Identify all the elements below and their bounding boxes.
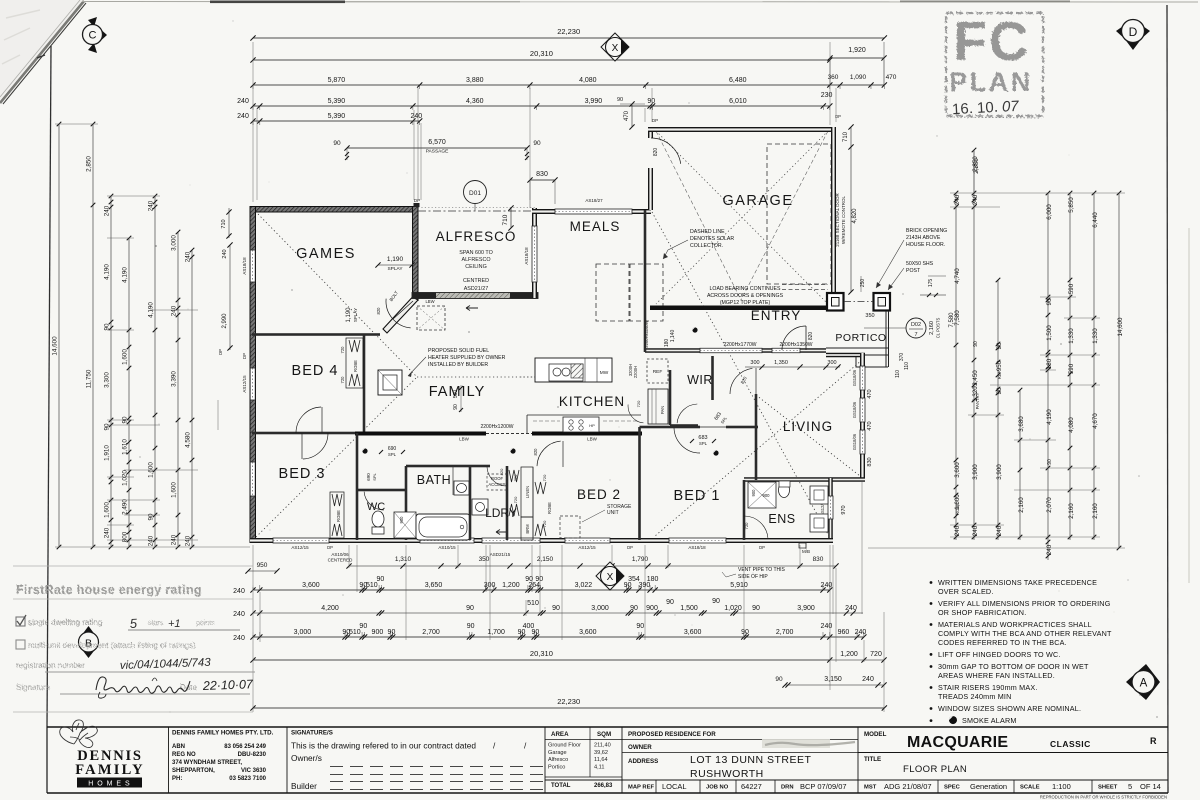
svg-text:90: 90 (388, 629, 396, 636)
svg-text:AS12/15: AS12/15 (242, 375, 247, 393)
bed2 door arc (537, 441, 561, 466)
svg-text:ENS: ENS (768, 512, 795, 526)
svg-text:GS18/06: GS18/06 (852, 433, 857, 450)
south exterior wall (250, 538, 833, 543)
svg-text:3,600: 3,600 (302, 582, 320, 589)
svg-text:WRITTEN DIMENSIONS TAKE PRECED: WRITTEN DIMENSIONS TAKE PRECEDENCE (938, 578, 1097, 587)
svg-text:2,990: 2,990 (222, 313, 228, 329)
svg-text:GAMES: GAMES (296, 246, 356, 262)
svg-text:3,000: 3,000 (591, 605, 609, 612)
bath/dry wall (469, 466, 472, 540)
svg-text:1,920: 1,920 (848, 47, 866, 54)
dash-dot line between posts (844, 301, 873, 303)
roof hip dotted line entry-living (652, 212, 830, 538)
bath top wall (406, 465, 490, 468)
marker D top right (1116, 24, 1126, 40)
svg-text:BED 4: BED 4 (292, 363, 339, 379)
svg-text:90: 90 (535, 576, 543, 583)
svg-text:830: 830 (536, 171, 548, 178)
svg-text:22,230: 22,230 (557, 27, 580, 36)
scan artifact top-left corner (0, 0, 83, 100)
svg-text:3200H: 3200H (628, 364, 633, 376)
svg-text:90: 90 (453, 404, 459, 410)
paper right edge artifact (1188, 228, 1190, 583)
svg-text:STAIR RISERS 190mm MAX.: STAIR RISERS 190mm MAX. (938, 683, 1038, 692)
svg-text:C: C (89, 30, 97, 42)
svg-text:3,900: 3,900 (996, 464, 1003, 480)
svg-text:ROBE: ROBE (955, 503, 960, 515)
svg-text:DP: DP (218, 349, 223, 355)
svg-text:90: 90 (376, 576, 384, 583)
dim 710 alfresco right (510, 208, 512, 228)
svg-text:CL POSTS: CL POSTS (936, 318, 941, 339)
ens right wall (828, 478, 833, 542)
FirstRate stamp lines (13, 565, 253, 567)
svg-text:DENNIS FAMILY HOMES PTY. LTD.: DENNIS FAMILY HOMES PTY. LTD. (172, 730, 274, 737)
top dim row 1920 (830, 57, 884, 59)
interior wall bed3/hall (252, 432, 355, 435)
svg-text:720: 720 (340, 346, 345, 354)
dashed lintel above entry wall (782, 284, 828, 286)
svg-text:1,140: 1,140 (670, 330, 676, 343)
svg-text:820: 820 (653, 148, 659, 157)
garage top wall (648, 127, 836, 132)
svg-text:TITLE: TITLE (864, 756, 881, 763)
svg-text:REF: REF (653, 369, 663, 375)
svg-text:3,022: 3,022 (575, 582, 593, 589)
svg-text:390: 390 (639, 582, 651, 589)
entry south wall (645, 348, 826, 353)
FirstRate energy stamp (16, 583, 202, 597)
svg-text:590: 590 (1068, 283, 1075, 294)
svg-text:INSTALLED BY BUILDER: INSTALLED BY BUILDER (428, 362, 488, 368)
svg-text:registration number: registration number (16, 661, 85, 670)
svg-text:LBW: LBW (587, 437, 598, 442)
arrow left alfresco (466, 306, 478, 311)
opening 2200Hx1200W in LBW (486, 433, 532, 435)
svg-text:4,080: 4,080 (579, 77, 597, 84)
marker B left (78, 626, 99, 640)
svg-text:Generation: Generation (970, 782, 1007, 791)
splay dim 1190 (378, 264, 412, 266)
svg-text:470: 470 (867, 389, 873, 398)
svg-text:LBW: LBW (425, 299, 434, 304)
svg-text:CODES REFERRED TO IN THE BCA.: CODES REFERRED TO IN THE BCA. (938, 638, 1067, 647)
svg-text:ROBE: ROBE (547, 502, 552, 514)
svg-text:180: 180 (647, 576, 659, 583)
roof hip dotted line living-bed1 (655, 360, 862, 536)
svg-text:ASD21/15: ASD21/15 (490, 552, 511, 557)
svg-text:211,40: 211,40 (594, 743, 611, 749)
svg-text:3,650: 3,650 (425, 582, 443, 589)
svg-text:PASSAGE: PASSAGE (426, 149, 449, 155)
bottom extension risers (252, 545, 254, 712)
svg-text:BRM: BRM (525, 524, 530, 534)
svg-text:3,390: 3,390 (171, 371, 178, 387)
marker D02 circle (906, 318, 926, 338)
svg-text:90: 90 (359, 623, 367, 630)
ens toilet (779, 483, 790, 498)
svg-text:950: 950 (996, 360, 1003, 371)
svg-text:720: 720 (340, 376, 345, 384)
kitchen island bench (535, 358, 612, 382)
svg-text:510: 510 (527, 600, 539, 607)
svg-text:240: 240 (185, 535, 192, 546)
svg-text:DP: DP (627, 545, 633, 550)
svg-text:970: 970 (841, 505, 847, 514)
skylight dashed box family (417, 306, 445, 330)
svg-text:90: 90 (532, 629, 540, 636)
top dim row 22230 (253, 37, 884, 39)
svg-text:240: 240 (862, 676, 874, 683)
svg-text:5,390: 5,390 (328, 98, 346, 105)
svg-text:2143H ABOVE: 2143H ABOVE (906, 235, 941, 241)
svg-text:960: 960 (838, 629, 850, 636)
svg-text:3,000: 3,000 (294, 629, 312, 636)
svg-text:ROBE: ROBE (336, 510, 341, 522)
svg-text:3,600: 3,600 (684, 629, 702, 636)
svg-text:ALFRESCO: ALFRESCO (436, 229, 517, 244)
svg-text:1,600: 1,600 (104, 502, 111, 518)
exterior wall left (250, 207, 256, 543)
svg-text:SMOKE ALARM: SMOKE ALARM (962, 716, 1017, 725)
svg-text:ALFRESCO: ALFRESCO (461, 257, 490, 263)
handwritten rating entries (120, 616, 212, 672)
paper speckles (103, 20, 1158, 718)
svg-text:300: 300 (827, 360, 836, 366)
svg-text:20,310: 20,310 (530, 49, 553, 58)
svg-text:PROPOSED RESIDENCE FOR: PROPOSED RESIDENCE FOR (628, 731, 716, 738)
svg-text:1,020: 1,020 (724, 605, 742, 612)
svg-text:90: 90 (624, 582, 632, 589)
svg-text:2200Hx1200W: 2200Hx1200W (480, 424, 513, 430)
svg-text:AS10/15: AS10/15 (438, 545, 456, 550)
svg-text:5: 5 (1128, 782, 1132, 791)
svg-text:LOT 13 DUNN STREET: LOT 13 DUNN STREET (690, 754, 811, 766)
exterior wall meals top (532, 209, 651, 214)
bathtub (416, 514, 470, 540)
svg-text:240: 240 (954, 194, 961, 205)
garage right wall (831, 127, 836, 295)
svg-text:MATERIALS AND WORKPRACTICES SH: MATERIALS AND WORKPRACTICES SHALL (938, 620, 1092, 629)
marker A right (1126, 664, 1160, 700)
bottom dim row B3 (253, 612, 863, 614)
svg-text:AS12/15: AS12/15 (578, 545, 596, 550)
svg-text:90: 90 (630, 605, 638, 612)
svg-text:90: 90 (333, 140, 341, 147)
svg-text:BATH: BATH (417, 473, 451, 487)
logo Dennis Family Homes (60, 720, 98, 748)
svg-text:3,880: 3,880 (466, 77, 484, 84)
svg-text:(MGP12 TOP PLATE): (MGP12 TOP PLATE) (720, 300, 771, 306)
svg-text:1,190: 1,190 (387, 256, 404, 263)
toilet wc (372, 511, 384, 527)
svg-text:83 056 254 249: 83 056 254 249 (224, 744, 266, 750)
top dim row 240-5390-4360-3990 (253, 105, 830, 107)
svg-text:FirstRate house energy rating: FirstRate house energy rating (16, 583, 202, 597)
handwritten signature (96, 677, 190, 693)
svg-text:900: 900 (646, 605, 658, 612)
svg-text:6,010: 6,010 (729, 98, 747, 105)
svg-text:22·10·07: 22·10·07 (202, 677, 255, 693)
dry arrow (496, 530, 508, 535)
svg-text:900: 900 (763, 493, 771, 498)
svg-text:240: 240 (845, 605, 857, 612)
svg-text:560: 560 (453, 390, 459, 399)
svg-text:VERIFY ALL DIMENSIONS PRIOR TO: VERIFY ALL DIMENSIONS PRIOR TO ORDERING (938, 599, 1111, 608)
svg-text:TOTAL: TOTAL (551, 783, 571, 789)
dry/linen wall (506, 466, 509, 540)
svg-text:5,850: 5,850 (1068, 197, 1075, 213)
marker C top left (97, 26, 107, 44)
svg-text:W/REMOTE CONTROL: W/REMOTE CONTROL (841, 196, 846, 244)
bath vanity (454, 481, 469, 495)
svg-text:710: 710 (843, 131, 849, 142)
svg-text:240: 240 (855, 629, 867, 636)
bottom dim 950 (248, 570, 277, 572)
dim 830 above meals (530, 179, 555, 181)
svg-text:820: 820 (533, 448, 538, 456)
page top edge line (82, 1, 1198, 4)
svg-text:BCP 07/09/07: BCP 07/09/07 (800, 782, 847, 791)
svg-text:2,160: 2,160 (1092, 503, 1099, 519)
svg-text:1,610: 1,610 (122, 439, 129, 455)
svg-text:SIDE OF HIP: SIDE OF HIP (738, 574, 768, 580)
wc/bed3 wall (356, 433, 359, 540)
svg-text:14,600: 14,600 (1117, 317, 1124, 336)
svg-text:REG NO: REG NO (172, 752, 196, 758)
window south AS18/18 (669, 538, 726, 543)
svg-text:1,190: 1,190 (346, 307, 352, 323)
svg-text:FLOOR PLAN: FLOOR PLAN (903, 764, 967, 775)
svg-text:LIFT OFF HINGED DOORS TO WC.: LIFT OFF HINGED DOORS TO WC. (938, 650, 1061, 659)
svg-text:2,070: 2,070 (1046, 497, 1053, 513)
svg-text:WIR: WIR (687, 373, 713, 387)
svg-text:UNIT: UNIT (607, 510, 619, 516)
left sheet border (47, 46, 51, 727)
svg-text:90: 90 (1047, 459, 1053, 465)
portico slab (826, 311, 889, 367)
storage unit dashed (560, 516, 580, 538)
wir door arc (677, 404, 697, 423)
bed1 top wall (640, 426, 701, 429)
bed3 robe (330, 492, 344, 538)
svg-text:DASHED LINE: DASHED LINE (690, 229, 725, 235)
svg-text:510: 510 (349, 629, 361, 636)
svg-text:Builder: Builder (291, 781, 317, 791)
svg-text:1,310: 1,310 (395, 556, 412, 563)
svg-text:AS18/18: AS18/18 (524, 247, 529, 265)
svg-text:SPL: SPL (372, 472, 377, 480)
window south AS10/15 (420, 538, 474, 543)
svg-text:90: 90 (973, 341, 979, 347)
kitchen dotted bench line (520, 376, 535, 378)
marker X top (601, 33, 629, 61)
svg-text:PORTICO: PORTICO (835, 332, 886, 344)
exterior wall games right (413, 207, 419, 301)
svg-text:175: 175 (928, 279, 934, 288)
roof ridge dotted line family-kitchen (417, 376, 614, 378)
pantry door arc (628, 405, 643, 423)
top dim row 20310 (253, 59, 830, 61)
living top wall (826, 353, 865, 358)
left dim stack lines (58, 124, 60, 547)
svg-text:CENTERED: CENTERED (328, 558, 354, 563)
svg-text:AS12/15: AS12/15 (291, 545, 309, 550)
svg-text:GS18/06: GS18/06 (852, 369, 857, 386)
svg-text:2,160: 2,160 (1068, 503, 1075, 519)
passage dim 6570 (347, 147, 527, 149)
svg-text:90: 90 (666, 599, 674, 606)
svg-text:90: 90 (647, 98, 655, 105)
svg-text:90: 90 (775, 676, 783, 683)
svg-text:240: 240 (148, 200, 155, 211)
svg-text:WINDOW SIZES SHOWN ARE NOMINAL: WINDOW SIZES SHOWN ARE NOMINAL. (938, 704, 1081, 713)
garage left door arc (651, 138, 681, 164)
svg-text:multi-unit development (attach: multi-unit development (attach listing o… (28, 641, 196, 650)
window south AS12/15 (273, 538, 329, 543)
garage left wall (648, 127, 653, 210)
top dim row 240-5390-240 (253, 120, 420, 122)
top dim row 5870-3880-4080-6480 (253, 84, 884, 86)
living bottom wall (744, 477, 865, 482)
svg-text:470: 470 (886, 74, 897, 81)
svg-text:2,850: 2,850 (86, 156, 93, 172)
LBW load bearing wall (355, 432, 486, 436)
window left AS18/18 (250, 250, 255, 282)
brick pier garage corner (827, 293, 844, 311)
svg-text:REPRODUCTION IN PART OR WHOLE: REPRODUCTION IN PART OR WHOLE IS STRICTL… (1040, 795, 1167, 800)
svg-text:64227: 64227 (741, 782, 762, 791)
dry trough (472, 499, 488, 515)
svg-text:SPL: SPL (699, 441, 708, 446)
svg-text:240: 240 (821, 623, 833, 630)
svg-text:720: 720 (542, 474, 547, 481)
svg-text:240: 240 (1046, 544, 1053, 555)
svg-text:ADDRESS: ADDRESS (628, 758, 658, 765)
roof hip dotted line bed3 (256, 377, 417, 537)
dry door arc (487, 467, 506, 486)
svg-text:ASD21/27: ASD21/27 (464, 286, 489, 292)
svg-text:AS18/18: AS18/18 (688, 545, 706, 550)
svg-text:SPLAY: SPLAY (387, 266, 403, 272)
svg-text:1,020: 1,020 (122, 470, 129, 486)
svg-text:4,190: 4,190 (104, 264, 111, 280)
svg-text:6,480: 6,480 (729, 77, 747, 84)
svg-text:950: 950 (257, 562, 268, 569)
svg-text:JOB NO: JOB NO (706, 785, 729, 791)
right stack horizontal connectors (950, 192, 1125, 194)
svg-text:374 WYNDHAM STREET,: 374 WYNDHAM STREET, (172, 760, 242, 766)
svg-text:ACROSS DOORS & OPENINGS: ACROSS DOORS & OPENINGS (707, 293, 784, 299)
living door arc (730, 368, 752, 394)
svg-text:1,350: 1,350 (774, 360, 788, 366)
svg-text:240: 240 (233, 588, 245, 595)
svg-text:LOCAL: LOCAL (662, 782, 687, 791)
window entry 2200Hx1770W (700, 348, 762, 353)
svg-text:DRN: DRN (781, 785, 794, 791)
wc door (364, 492, 384, 510)
svg-text:10: 10 (977, 99, 995, 117)
svg-text:2,700: 2,700 (422, 629, 440, 636)
ens shower (748, 482, 776, 508)
kitchen bench lower (527, 414, 641, 416)
svg-text:2,490: 2,490 (122, 499, 129, 515)
svg-text:X: X (607, 572, 614, 583)
FC stamp date handwritten (952, 98, 1020, 119)
dash-dot roof line over alfresco (418, 210, 535, 212)
svg-text:PROPOSED SOLID FUEL: PROPOSED SOLID FUEL (428, 348, 489, 354)
svg-text:ROBE: ROBE (353, 360, 358, 372)
svg-text:M/B: M/B (802, 549, 810, 554)
svg-text:4,080: 4,080 (1068, 417, 1075, 433)
svg-text:2200Hx1770W: 2200Hx1770W (723, 342, 756, 348)
svg-text:OR SHOP FABRICATION.: OR SHOP FABRICATION. (938, 608, 1026, 617)
window south AS12/15 b (565, 538, 610, 543)
svg-text:900: 900 (751, 489, 756, 497)
svg-text:830: 830 (813, 556, 824, 563)
svg-text:HOUSE FLOOR.: HOUSE FLOOR. (906, 242, 945, 248)
pantry PAN (648, 389, 668, 424)
svg-text:1:100: 1:100 (1052, 782, 1071, 791)
svg-text:SPAN 600 TO: SPAN 600 TO (459, 250, 493, 256)
svg-text:Ground Floor: Ground Floor (548, 743, 581, 749)
svg-text:110: 110 (895, 370, 901, 378)
svg-text:OF 14: OF 14 (1140, 782, 1161, 791)
svg-text:Portico: Portico (548, 764, 565, 770)
svg-text:HEATER SUPPLIED BY OWNER: HEATER SUPPLIED BY OWNER (428, 355, 506, 361)
svg-text:SIGNATURE/S: SIGNATURE/S (291, 730, 333, 737)
svg-text:DP: DP (414, 198, 420, 203)
svg-text:OWNER: OWNER (628, 744, 652, 751)
window ens GS12/06 (828, 496, 833, 519)
bed4 robe (346, 338, 363, 388)
svg-text:SPLAY: SPLAY (353, 308, 358, 322)
svg-text:90: 90 (617, 97, 623, 103)
svg-text:2,160: 2,160 (1018, 497, 1025, 513)
svg-text:4,190: 4,190 (1046, 409, 1053, 425)
garage 710 and 4820 vdims (850, 127, 852, 292)
svg-text:1,090: 1,090 (850, 74, 867, 81)
bath vanity divider (452, 466, 454, 495)
svg-text:4,360: 4,360 (466, 98, 484, 105)
svg-text:ADG 21/08/07: ADG 21/08/07 (884, 782, 932, 791)
svg-text:MACQUARIE: MACQUARIE (907, 734, 1008, 751)
wc top wall (357, 489, 406, 492)
svg-text:240: 240 (237, 98, 249, 105)
svg-text:240: 240 (954, 525, 961, 536)
svg-text:2,160: 2,160 (929, 321, 935, 335)
svg-text:Alfresco: Alfresco (548, 757, 568, 763)
svg-text:Signature: Signature (16, 683, 51, 692)
svg-text:BED 3: BED 3 (279, 466, 326, 482)
svg-text:3,300: 3,300 (104, 372, 111, 388)
svg-text:370: 370 (899, 353, 905, 362)
svg-text:DBU-8230: DBU-8230 (238, 752, 267, 758)
svg-text:180: 180 (664, 339, 670, 348)
exterior wall games top (250, 207, 418, 213)
svg-text:DP: DP (327, 545, 333, 550)
svg-text:21168 SECTIONAL DOOR: 21168 SECTIONAL DOOR (835, 192, 840, 246)
svg-text:470: 470 (624, 110, 630, 121)
svg-text:710: 710 (221, 219, 227, 228)
svg-text:X: X (612, 43, 619, 54)
window entry 2200Hx1350W (772, 348, 800, 353)
svg-text:240: 240 (104, 205, 111, 216)
svg-text:MST: MST (864, 785, 877, 791)
svg-text:1,600: 1,600 (171, 482, 178, 498)
svg-text:90: 90 (533, 140, 541, 147)
